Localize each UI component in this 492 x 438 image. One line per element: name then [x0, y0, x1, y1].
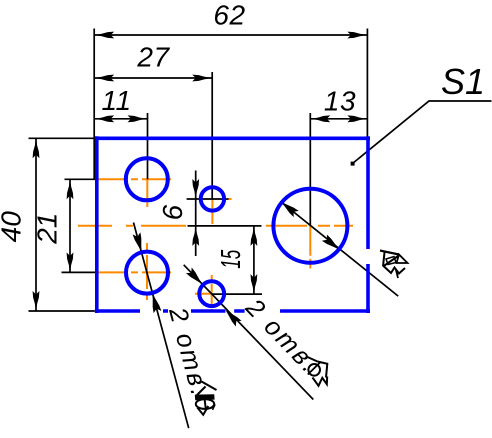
arrow 62 left [94, 32, 114, 39]
centerline col2 vertical (hole C4) [211, 275, 213, 312]
text d18 label blob [380, 251, 408, 279]
extension line col2 (27 dim) [211, 72, 213, 199]
extension line row E (15 dim) [212, 293, 263, 295]
hole C1 d10 top-left [126, 158, 168, 200]
dimension line 21 [69, 179, 71, 272]
extension tick row B (6 dim) [187, 198, 229, 200]
svg-text:11: 11 [101, 85, 131, 116]
extension line left edge x=94 [93, 29, 95, 180]
text d10 label blob [195, 382, 217, 415]
dimension line 27 [94, 77, 212, 79]
extension line top-left corner (40 dim) [29, 137, 95, 139]
part outline left edge [95, 136, 99, 313]
extension line row A (21 dim) [65, 178, 97, 180]
centerline row E horizontal (hole C4) [195, 293, 212, 295]
hole C5 d18 right [273, 189, 347, 263]
arrow 13 right [347, 115, 367, 122]
arrow 6 bottom (outside, points up) [192, 226, 199, 246]
svg-text:21: 21 [32, 213, 63, 245]
arrow 15 bottom (inside, points down) [251, 274, 258, 294]
svg-text:62: 62 [213, 0, 245, 30]
arrow 11 right [128, 115, 148, 122]
part outline right edge (gap at leader crossing) [366, 136, 370, 313]
arrow leader C5 upper (inside circle, points up-left) [279, 199, 299, 217]
arrow 40 bottom [33, 291, 40, 311]
leader d18 (hole C5) [281, 202, 398, 296]
svg-text:27: 27 [136, 42, 170, 73]
part outline top edge [95, 137, 370, 141]
extension line right edge x=367.5 [366, 29, 368, 139]
dimension line 13 [310, 118, 367, 120]
extension line col3 (13 dim) [309, 113, 311, 226]
arrow 13 left [310, 115, 330, 122]
svg-text:40: 40 [0, 211, 27, 243]
centerline col1 vertical (hole C3) [146, 243, 148, 300]
extension line row D (21 dim) [62, 271, 97, 273]
svg-text:13: 13 [324, 85, 356, 116]
centerline row D horizontal (hole C3) [98, 271, 172, 273]
part outline bottom edge (gaps at leaders and labels) [95, 309, 370, 313]
dimension line 15 [253, 226, 255, 294]
centerline col1 vertical (hole C1) [146, 179, 148, 207]
arrow leader C5 lower (inside circle, points down-right) [322, 234, 342, 252]
svg-text:S1: S1 [441, 61, 485, 102]
arrow 40 top [33, 138, 40, 158]
arrow leader C4 lower [223, 307, 242, 326]
leader 2 otv d10 (hole C3) [134, 223, 189, 429]
hole C3 d10 bottom-left [126, 252, 168, 294]
dimension line 6 (with tails) [195, 171, 197, 257]
extension line bottom-left corner (40 dim) [29, 310, 95, 312]
hole C4 d6 bottom [199, 281, 224, 306]
arrow 21 top [67, 179, 74, 199]
extension line row C (6/15 dims) [188, 225, 262, 227]
arrow leader C3 lower [149, 293, 162, 313]
extension line col1 (11 dim) [147, 113, 149, 179]
arrow leader C3 upper [133, 232, 146, 252]
arrow 27 left [94, 75, 114, 82]
arrow 6 top (outside, points down) [192, 179, 199, 199]
leader S1 [353, 101, 492, 164]
arrow leader C4 upper [186, 268, 205, 287]
centerline col3 vertical (hole C5) [309, 226, 311, 269]
arrow 62 right [347, 32, 367, 39]
hole C2 d6 top [201, 187, 224, 210]
leader 2 otv d6 (hole C4) [184, 265, 314, 400]
centerline row C horizontal (hole C5) [266, 225, 353, 227]
text d6 label blob [308, 357, 328, 386]
centerline row C horizontal left (part axis) [78, 225, 186, 227]
arrow 15 top (inside, points up) [251, 226, 258, 246]
svg-text:15: 15 [215, 249, 246, 268]
dimension line 11 [94, 118, 147, 120]
dimension line 62 [94, 34, 367, 36]
arrow 21 bottom [67, 252, 74, 272]
svg-text:2 отв.: 2 отв. [163, 304, 214, 401]
arrow 11 left [94, 115, 114, 122]
leader S1 square dot [351, 162, 355, 166]
arrow 27 right [192, 75, 212, 82]
centerline col2 vertical (hole C2) [211, 199, 213, 224]
dimension line 40 [35, 138, 37, 311]
centerline row A horizontal (hole C1) [98, 178, 172, 180]
svg-text:6: 6 [157, 204, 188, 220]
centerline row B horizontal (hole C2) [228, 198, 232, 200]
